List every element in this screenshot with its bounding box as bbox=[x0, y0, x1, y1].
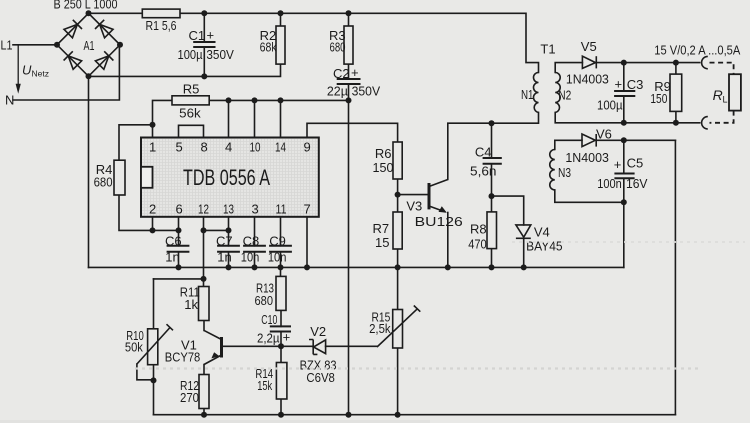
node bridge left bbox=[54, 42, 60, 48]
wire N3 top to V6 bbox=[555, 140, 582, 149]
bridge diode bottom-left bbox=[64, 51, 82, 69]
svg-text:50k: 50k bbox=[125, 340, 143, 355]
node pin7 ground bbox=[304, 264, 310, 270]
node pin10 rail bbox=[252, 97, 258, 103]
wire C4 top lead bbox=[491, 123, 493, 158]
resistor R3 bbox=[344, 26, 353, 64]
resistor R6 bbox=[393, 142, 402, 179]
node pin12 R11 R10 jog bbox=[201, 276, 207, 282]
node pin1 R4 R5 bbox=[150, 122, 156, 128]
svg-text:C10: C10 bbox=[261, 312, 277, 327]
svg-text:BAY45: BAY45 bbox=[526, 239, 563, 254]
wire C4 bottom lead bbox=[491, 164, 493, 196]
svg-text:15k: 15k bbox=[257, 378, 272, 393]
potentiometer R10 bbox=[148, 329, 158, 365]
svg-text:+: + bbox=[283, 329, 291, 344]
svg-text:L1: L1 bbox=[1, 38, 13, 53]
wire R10 wiper hook bbox=[137, 364, 154, 380]
resistor R2 bbox=[276, 26, 285, 64]
wire V1 base line bbox=[222, 345, 312, 347]
wire pin11 to C9 bbox=[280, 217, 282, 246]
svg-text:9: 9 bbox=[304, 139, 311, 154]
node pin4 rail bbox=[226, 97, 232, 103]
svg-text:R1 5,6: R1 5,6 bbox=[146, 18, 177, 33]
node C4 R8 V4 bbox=[489, 193, 495, 199]
bridge diode top-left bbox=[64, 20, 82, 38]
svg-text:68k: 68k bbox=[260, 39, 277, 54]
svg-text:C4: C4 bbox=[475, 145, 492, 160]
svg-text:680: 680 bbox=[330, 39, 346, 54]
svg-text:C6V8: C6V8 bbox=[306, 370, 335, 385]
node V3 emitter ground bbox=[445, 264, 451, 270]
svg-text:U: U bbox=[22, 63, 32, 78]
capacitor C2 bbox=[337, 79, 361, 84]
capacitor C7 bbox=[217, 246, 240, 252]
node C2 line bottom rail bbox=[346, 412, 352, 418]
svg-text:+: + bbox=[351, 65, 359, 80]
svg-text:10n: 10n bbox=[241, 250, 259, 265]
svg-text:BU126: BU126 bbox=[415, 214, 463, 229]
svg-text:4: 4 bbox=[225, 139, 232, 154]
diode V5 1N4003 bbox=[582, 56, 595, 68]
svg-text:150: 150 bbox=[373, 160, 394, 175]
svg-text:56k: 56k bbox=[179, 106, 201, 121]
node C1 top bbox=[201, 10, 207, 16]
wire V5 cathode to output top rail bbox=[597, 62, 700, 64]
svg-text:+: + bbox=[615, 77, 623, 92]
svg-text:350V: 350V bbox=[206, 47, 234, 62]
wire top +rail R1 to transformer N1 top bbox=[180, 13, 539, 72]
svg-text:11: 11 bbox=[276, 201, 287, 216]
wire R14 leads bbox=[280, 346, 282, 414]
output terminal top bbox=[702, 56, 708, 68]
svg-text:1N4003: 1N4003 bbox=[566, 71, 609, 86]
scan artifact band bottom bbox=[0, 420, 430, 423]
svg-text:5: 5 bbox=[176, 139, 183, 154]
wire C1 leads bbox=[203, 13, 205, 76]
svg-text:13: 13 bbox=[223, 201, 234, 216]
wire R15 bottom to rail bbox=[397, 348, 399, 415]
node V3 base R6 R7 bbox=[395, 192, 401, 198]
svg-text:6: 6 bbox=[176, 201, 183, 216]
svg-text:12: 12 bbox=[198, 201, 209, 216]
node R8 ground bbox=[489, 264, 495, 270]
wire L1 input bbox=[13, 44, 57, 46]
node C6 ground bbox=[176, 264, 182, 270]
svg-text:A1: A1 bbox=[84, 38, 95, 53]
node C3 top bbox=[621, 60, 627, 66]
svg-text:2,5k: 2,5k bbox=[369, 321, 391, 336]
node pin12 link bbox=[201, 227, 207, 233]
wire N3 bottom to C5 bottom node bbox=[555, 190, 624, 202]
bridge diode top-right bbox=[95, 20, 113, 38]
wire R3 stubs bbox=[348, 13, 350, 79]
svg-text:1k: 1k bbox=[184, 297, 198, 312]
transformer T1 winding N1 bbox=[534, 73, 539, 113]
wire pin12 pin13 link bbox=[204, 229, 229, 231]
svg-text:1n: 1n bbox=[165, 250, 179, 265]
node R9 bottom bbox=[673, 120, 679, 126]
resistor R13 bbox=[276, 276, 286, 310]
node C8 ground bbox=[252, 264, 258, 270]
arrow U_Netz bbox=[17, 45, 19, 84]
node V4 ground bbox=[521, 264, 527, 270]
wire C10 to base node of V1 bbox=[280, 332, 282, 347]
wire R13 from ground rail bbox=[280, 267, 282, 276]
node pin6 R4 link bbox=[176, 227, 182, 233]
capacitor C1 bbox=[193, 42, 215, 47]
svg-text:+: + bbox=[207, 28, 215, 43]
svg-text:N3: N3 bbox=[558, 165, 571, 180]
wire pin7 to ground rail bbox=[306, 217, 308, 268]
wire pin5 pin8 bridge bbox=[179, 125, 204, 137]
wire C2 bottom lead into R5 rail bbox=[348, 84, 350, 100]
wire pin2 stub bbox=[152, 217, 154, 231]
resistor R8 bbox=[487, 212, 497, 249]
svg-text:2: 2 bbox=[149, 201, 156, 216]
capacitor C8 bbox=[243, 246, 266, 252]
svg-text:100µ: 100µ bbox=[178, 47, 203, 62]
wire R10 bottom to rail corner bbox=[153, 365, 155, 415]
wire C4 node to R8 bbox=[491, 196, 493, 267]
svg-text:V4: V4 bbox=[534, 225, 550, 240]
node C9 R13 ground bbox=[278, 264, 284, 270]
svg-text:350V: 350V bbox=[352, 83, 381, 98]
svg-text:100n: 100n bbox=[597, 176, 622, 191]
svg-text:2,2µ: 2,2µ bbox=[257, 330, 280, 345]
svg-text:N1: N1 bbox=[521, 87, 534, 102]
wire top +rail from bridge to R1 bbox=[89, 12, 143, 14]
wire R13 to C10 bbox=[280, 310, 282, 326]
wire pin1 stub bbox=[152, 125, 154, 138]
resistor R11 bbox=[199, 287, 210, 321]
node R12 bottom rail bbox=[201, 412, 207, 418]
node C1 bottom bbox=[201, 73, 207, 79]
output terminal bottom bbox=[702, 117, 708, 129]
wire bridge minus rail to C1 R2 bbox=[89, 64, 281, 76]
node C5 bottom bbox=[621, 199, 627, 205]
bridge rectifier A1 diamond bbox=[57, 13, 120, 76]
wire bridge minus down to ground rail bbox=[88, 76, 90, 267]
wire pin6 to C6 bbox=[178, 217, 180, 246]
capacitor C5 bbox=[614, 174, 634, 179]
wire C6 to ground rail bbox=[178, 252, 180, 268]
svg-text:C1: C1 bbox=[189, 28, 206, 43]
diode V4 BAY45 bbox=[516, 225, 531, 237]
svg-text:5,6n: 5,6n bbox=[470, 164, 497, 179]
node C5 top bbox=[621, 137, 627, 143]
transformer winding N3 bbox=[550, 150, 555, 190]
wire V4 to ground rail bbox=[523, 238, 525, 267]
svg-text:Netz: Netz bbox=[32, 69, 49, 79]
svg-text:T1: T1 bbox=[540, 42, 555, 57]
transistor Q V1 BCY78 bbox=[220, 337, 223, 358]
svg-text:R6: R6 bbox=[375, 146, 392, 161]
svg-text:+: + bbox=[614, 157, 622, 172]
wire N input bbox=[13, 45, 119, 100]
svg-text:C3: C3 bbox=[627, 77, 644, 92]
svg-text:8: 8 bbox=[201, 139, 208, 154]
svg-text:C8: C8 bbox=[243, 234, 260, 249]
svg-text:1: 1 bbox=[149, 139, 156, 154]
resistor R7 bbox=[393, 212, 402, 249]
svg-text:C2: C2 bbox=[333, 66, 350, 81]
svg-text:15: 15 bbox=[375, 235, 389, 250]
wire V3 emitter down to ground rail bbox=[447, 213, 449, 268]
capacitor C6 bbox=[167, 246, 190, 252]
wire C3 leads bbox=[623, 63, 625, 123]
node C4 top bbox=[489, 120, 495, 126]
resistor R14 bbox=[276, 363, 287, 400]
svg-text:C9: C9 bbox=[269, 234, 286, 249]
resistor R1 bbox=[142, 9, 180, 18]
wire ground rail right end up to C5 bottom node bbox=[623, 202, 625, 267]
wire R2 top stub bbox=[280, 13, 282, 26]
svg-text:14: 14 bbox=[275, 139, 286, 154]
resistor R12 bbox=[199, 375, 209, 409]
node bridge top bbox=[86, 10, 92, 16]
node R14 bottom rail bbox=[278, 412, 284, 418]
transistor Q V3 BU126 bbox=[428, 183, 431, 209]
node pin2 R4 bbox=[150, 227, 156, 233]
svg-text:V6: V6 bbox=[596, 126, 612, 141]
svg-text:270: 270 bbox=[180, 390, 199, 405]
node C2 bottom bbox=[346, 97, 352, 103]
svg-text:C5: C5 bbox=[627, 156, 644, 171]
wire R7 stubs bbox=[397, 195, 399, 268]
svg-text:680: 680 bbox=[94, 175, 113, 190]
wire primary ground rail bbox=[89, 266, 624, 268]
U1 notch bbox=[141, 167, 153, 188]
wire V6 cathode to C5 node bbox=[597, 139, 675, 141]
capacitor C4 bbox=[483, 158, 502, 164]
resistor R9 bbox=[670, 74, 682, 111]
svg-text:3: 3 bbox=[252, 201, 259, 216]
op-amp U1 TDB0556A body bbox=[141, 138, 319, 217]
wire R6 to base node bbox=[397, 179, 399, 195]
svg-text:N: N bbox=[5, 93, 14, 108]
capacitor C3 bbox=[614, 91, 635, 96]
svg-text:V5: V5 bbox=[581, 39, 597, 54]
wire C2 line down to bottom rail bbox=[348, 100, 350, 414]
svg-text:15 V/0,2 A ...0,5A: 15 V/0,2 A ...0,5A bbox=[654, 43, 740, 58]
svg-text:1n: 1n bbox=[217, 250, 231, 265]
svg-text:470: 470 bbox=[468, 237, 487, 252]
resistor R5 bbox=[172, 96, 209, 105]
node C10 base bbox=[278, 343, 284, 349]
wire base node to V3 bbox=[398, 194, 428, 196]
node R9 top bbox=[673, 60, 679, 66]
resistor R4 bbox=[114, 160, 125, 195]
wire R9 stubs bbox=[675, 63, 677, 123]
svg-text:1N4003: 1N4003 bbox=[565, 150, 609, 165]
node R7 R15 ground bbox=[395, 264, 401, 270]
bridge diode bottom-right bbox=[95, 51, 113, 69]
load R_L box bbox=[729, 74, 741, 110]
svg-text:R7: R7 bbox=[373, 221, 390, 236]
wire R10 branch left vertical bbox=[153, 279, 155, 329]
svg-text:TDB 0556 A: TDB 0556 A bbox=[183, 165, 270, 190]
wire R4 bottom link to pins 2 and 6 bbox=[119, 195, 179, 230]
wire pin3 to C8 bbox=[254, 217, 256, 246]
svg-text:C7: C7 bbox=[216, 234, 233, 249]
load R_L dashed leads bbox=[710, 63, 734, 123]
wire R15 top from ground rail bbox=[397, 267, 399, 309]
wire C8 to ground rail bbox=[254, 252, 256, 268]
wire R5 rail pins 4 10 14 to C2 bbox=[153, 100, 349, 137]
node bridge bottom bbox=[86, 73, 92, 79]
wire N2 top to V5 bbox=[555, 63, 582, 73]
node C7 ground bbox=[226, 264, 232, 270]
svg-text:10n: 10n bbox=[268, 250, 287, 265]
svg-text:16V: 16V bbox=[626, 176, 648, 191]
diode V6 1N4003 bbox=[582, 134, 595, 147]
svg-text:R5: R5 bbox=[183, 81, 200, 96]
wire feedback line right side bbox=[674, 140, 676, 414]
node bridge right bbox=[117, 42, 123, 48]
node pin13 link bbox=[226, 227, 232, 233]
transformer T1 winding N2 bbox=[555, 73, 560, 113]
svg-text:150: 150 bbox=[650, 91, 667, 106]
wire C9 to ground rail bbox=[280, 252, 282, 268]
wire pin12 down to R11 jog bbox=[154, 217, 204, 279]
capacitor C10 bbox=[270, 326, 291, 331]
svg-text:V2: V2 bbox=[310, 324, 326, 339]
svg-text:100µ: 100µ bbox=[597, 97, 623, 112]
svg-text:R8: R8 bbox=[470, 222, 487, 237]
wire R12 emitter chain bbox=[203, 365, 205, 415]
node pin14 rail bbox=[278, 97, 284, 103]
wire pin9 to R6 top bbox=[307, 123, 398, 142]
wire bottom rail bbox=[154, 414, 676, 416]
svg-text:B 250 L 1000: B 250 L 1000 bbox=[54, 0, 118, 12]
svg-text:L: L bbox=[723, 95, 728, 105]
capacitor C9 bbox=[269, 246, 292, 252]
svg-text:R: R bbox=[713, 87, 723, 103]
scan artifact dotted row mid bbox=[135, 367, 700, 369]
node C3 bottom bbox=[621, 120, 627, 126]
svg-text:C6: C6 bbox=[165, 234, 182, 249]
wire C5 leads bbox=[623, 140, 625, 202]
wire pin13 to C7 bbox=[228, 217, 230, 246]
wire R4 top link bbox=[119, 125, 153, 160]
svg-text:680: 680 bbox=[255, 293, 274, 308]
node R15 bottom rail bbox=[395, 412, 401, 418]
wire C4 node to V4 bbox=[492, 196, 524, 225]
wire V3 collector up to N1 bottom line bbox=[448, 112, 539, 179]
svg-text:10: 10 bbox=[250, 139, 261, 154]
svg-text:22µ: 22µ bbox=[327, 83, 348, 98]
node R2 top bbox=[278, 10, 284, 16]
scan artifact dotted row right bbox=[512, 241, 745, 243]
wire N2 bottom secondary rail bbox=[555, 112, 700, 122]
wire V2 anode to R15 wiper bbox=[326, 345, 377, 347]
svg-text:7: 7 bbox=[304, 201, 311, 216]
node R10 wiper bbox=[151, 377, 157, 383]
wire R11 collector chain bbox=[203, 279, 206, 331]
node R3 top bbox=[346, 10, 352, 16]
svg-text:N2: N2 bbox=[558, 88, 571, 103]
wire C7 to ground rail bbox=[228, 252, 230, 268]
potentiometer R15 bbox=[393, 310, 403, 349]
svg-text:V3: V3 bbox=[406, 199, 422, 214]
zener diode V2 BZX83 bbox=[309, 340, 317, 355]
svg-text:BCY78: BCY78 bbox=[165, 350, 201, 365]
